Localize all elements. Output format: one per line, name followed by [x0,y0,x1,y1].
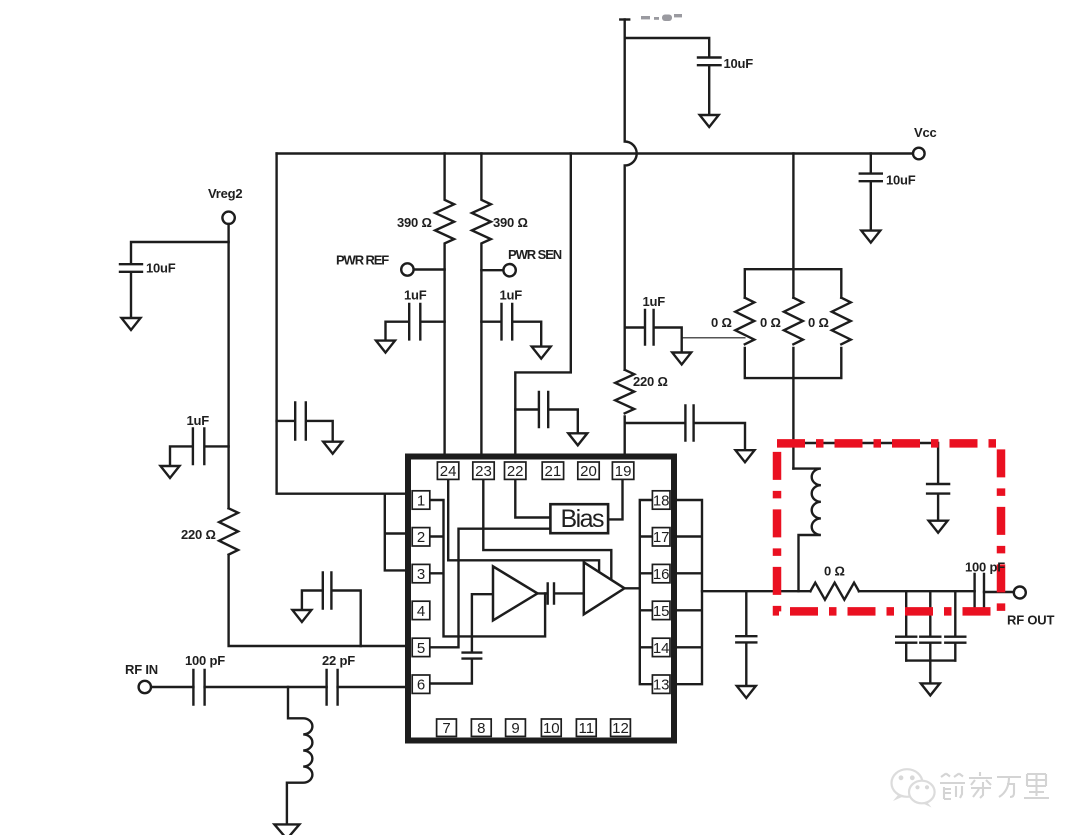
wire branch to top 10uF [625,38,710,57]
wire amp2 output to right bus [625,587,640,589]
ground (top 10uF) [700,115,719,127]
pin 9 [506,719,526,736]
pin 10 [541,719,561,736]
pin 17 [652,528,670,546]
wire pin22 column from rail [515,154,571,457]
resistor 0 ohm left [735,298,754,345]
svg-text:12: 12 [612,720,629,737]
pin 11 [576,719,596,736]
wire capacitor bank bottom bar [906,661,955,684]
wire Vreg1 vertical with hop over Vcc rail [625,20,637,457]
node PWR SEN terminal [481,264,515,276]
svg-text:1: 1 [417,492,425,509]
svg-text:1uF: 1uF [643,294,666,309]
ground (red box cap) [929,521,948,533]
svg-text:22: 22 [507,463,524,480]
capacitor 1uF (PWR SEN) [481,304,541,347]
capacitor (pin22 bypass) [515,392,578,433]
ground (PWR SEN 1uF) [532,347,551,359]
op-amp amp1 triangle [493,566,538,620]
capacitor 1uF (PWR REF) [386,304,445,341]
inductor (RF input shunt) [287,687,313,824]
pin 14 [652,638,670,656]
highlight box red dash-dot rectangle [777,443,1001,611]
op-amp amp2 triangle [584,562,625,614]
svg-text:100 pF: 100 pF [185,653,225,668]
wire pin6 to internal cap [430,659,472,684]
pin 13 [652,675,670,693]
svg-text:5: 5 [417,640,425,657]
ground (pin22 bypass cap) [568,433,587,445]
svg-text:0 Ω: 0 Ω [711,315,732,330]
capacitor 10uF (Vreg2) [120,264,142,318]
svg-text:17: 17 [653,529,670,546]
ground (Vcc 10uF) [861,231,880,243]
ground (left column bypass cap) [323,442,342,454]
resistor 220 ohm (Vreg1 column) [615,370,634,414]
resistor 0 ohm middle [784,298,803,345]
svg-text:23: 23 [475,463,492,480]
pin 19 [612,462,633,479]
svg-text:16: 16 [653,566,670,583]
wire pins 1-2-3 internal bus and feedback [430,500,546,636]
node Vcc terminal [913,148,925,160]
svg-text:Vcc: Vcc [914,125,937,140]
resistor 390 ohm right [472,154,491,457]
wire thin link to 0 ohm resistor [682,337,745,339]
node Vreg1 (terminal tick, cut off at top) [620,18,629,20]
capacitor 100 pF (output series) [975,574,984,610]
svg-text:220 Ω: 220 Ω [633,374,668,389]
capacitor (red box shunt) [927,484,949,521]
pin 3 [412,564,430,582]
svg-text:0 Ω: 0 Ω [824,564,845,579]
svg-text:0 Ω: 0 Ω [760,315,781,330]
inductor (output matching, in red box) [793,469,821,592]
pin 22 [505,462,526,479]
pin 8 [471,719,491,736]
wire RF input line [151,686,412,688]
pin 12 [611,719,631,736]
resistor 220 ohm (Vreg2 column) [219,508,238,554]
wire pin22 internal to Bias [515,479,550,518]
svg-text:4: 4 [417,603,425,620]
svg-text:18: 18 [653,492,670,509]
ground (Vreg2 10uF) [122,318,141,330]
ground (pin5 bypass cap) [292,610,311,622]
pin 6 [412,675,430,693]
capacitor 22 pF (RF input) [327,670,338,705]
wire external bus pins 1-2-3 [385,494,413,571]
pin number labels [417,463,670,737]
pin 2 [412,528,430,546]
svg-text:390 Ω: 390 Ω [493,215,528,230]
ground (Vreg1 1uF) [672,353,691,365]
capacitor internal (amp1 input) [463,594,493,658]
svg-text:100 pF: 100 pF [965,560,1005,575]
capacitor (pin5 bypass) [302,573,361,647]
node RF OUT terminal [1014,587,1026,599]
wire Vcc column into matching network [792,378,794,469]
label Vreg1 remnant (cut off) [641,14,682,21]
wire pin24 internal to amp2 [448,479,599,572]
svg-text:14: 14 [653,640,670,657]
svg-text:RF OUT: RF OUT [1007,613,1054,628]
capacitor bank shunt 3 [945,591,965,660]
capacitor bank shunt 1 [896,591,916,660]
pin 21 [542,462,563,479]
svg-text:10uF: 10uF [146,261,176,276]
pin 4 [412,601,430,619]
wire internal right bus pins 13-18 [640,500,653,684]
svg-text:RF IN: RF IN [125,662,158,677]
svg-text:PWR SEN: PWR SEN [508,247,562,262]
IC pin boxes top row [412,462,670,736]
node PWR REF terminal [401,263,444,275]
svg-text:11: 11 [579,720,595,737]
svg-text:2: 2 [417,529,425,546]
svg-text:15: 15 [653,603,670,620]
svg-text:10uF: 10uF [724,56,754,71]
capacitor (left column bypass) [277,403,333,442]
op-amp U1 IC body outline [408,457,674,741]
node RF IN terminal [139,681,151,693]
svg-text:1uF: 1uF [500,288,523,303]
svg-text:19: 19 [615,463,632,480]
pin 5 [412,638,430,656]
ground (PWR REF 1uF) [376,341,395,353]
svg-text:10uF: 10uF [886,173,916,188]
wire 0 ohm block frame [745,269,842,378]
wire pin23 internal to amp2 [483,479,611,580]
ground (pin19 bypass cap) [736,450,755,462]
Bias block box [550,504,608,533]
svg-text:PWR REF: PWR REF [336,253,389,268]
capacitor (pin19 bypass) [625,406,745,451]
svg-text:9: 9 [511,720,519,737]
capacitor 10uF (Vcc bypass) [860,154,882,231]
wire Vcc center column [792,154,794,379]
svg-text:22 pF: 22 pF [322,653,355,668]
capacitor 1uF (Vreg1 column) [625,310,682,353]
watermark logo bubbles [892,769,935,807]
svg-text:1uF: 1uF [404,288,427,303]
wire pin19 internal to Bias [608,479,622,519]
svg-text:Vreg2: Vreg2 [208,186,242,201]
ground (output shunt cap) [737,686,756,698]
wire pin5 internal to Bias [430,529,551,648]
capacitor 100 pF (RF input) [193,670,204,705]
svg-text:1uF: 1uF [187,413,210,428]
svg-text:24: 24 [440,463,457,480]
capacitor bank shunt 2 [920,591,940,660]
svg-text:20: 20 [580,463,597,480]
svg-text:13: 13 [653,677,670,694]
wire top link in red box [793,443,938,484]
svg-text:Bias: Bias [561,505,605,533]
capacitor interstage [538,584,584,604]
svg-text:0 Ω: 0 Ω [808,315,829,330]
ground (Vreg2 1uF) [161,466,180,478]
svg-text:390 Ω: 390 Ω [397,215,432,230]
resistor 390 ohm left [435,154,454,457]
svg-text:3: 3 [417,566,425,583]
svg-text:8: 8 [477,720,485,737]
pin 23 [473,462,494,479]
wire external right-side stubs and bus [676,500,702,684]
pin 18 [652,491,670,509]
wire Vcc top rail [277,152,913,154]
pin 20 [578,462,599,479]
svg-text:10: 10 [543,720,560,737]
wire RF output line [702,590,1013,593]
wire branch to Vreg2 10uF [131,242,229,264]
resistor 0 ohm (output series) [810,583,859,600]
wire left rail column to pin 1 [277,154,413,494]
capacitor 10uF (top, Vreg1 bypass) [698,58,721,116]
ground (input inductor) [274,824,299,835]
pin 1 [412,491,430,509]
node Vreg2 terminal [222,212,234,224]
pin 7 [437,719,457,736]
watermark text (stylised CJK strokes) [940,772,1049,799]
pin 24 [437,462,458,479]
svg-text:6: 6 [417,677,425,694]
resistor 0 ohm right [832,298,851,345]
capacitor 1uF (Vreg2 column) [170,429,229,467]
svg-text:7: 7 [442,720,450,737]
wire Vreg2 column [229,224,413,646]
ground (capacitor bank) [921,683,940,695]
svg-text:220 Ω: 220 Ω [181,527,216,542]
pin 15 [652,601,670,619]
svg-text:21: 21 [545,463,562,480]
pin 16 [652,564,670,582]
capacitor (output shunt near IC) [736,591,756,686]
